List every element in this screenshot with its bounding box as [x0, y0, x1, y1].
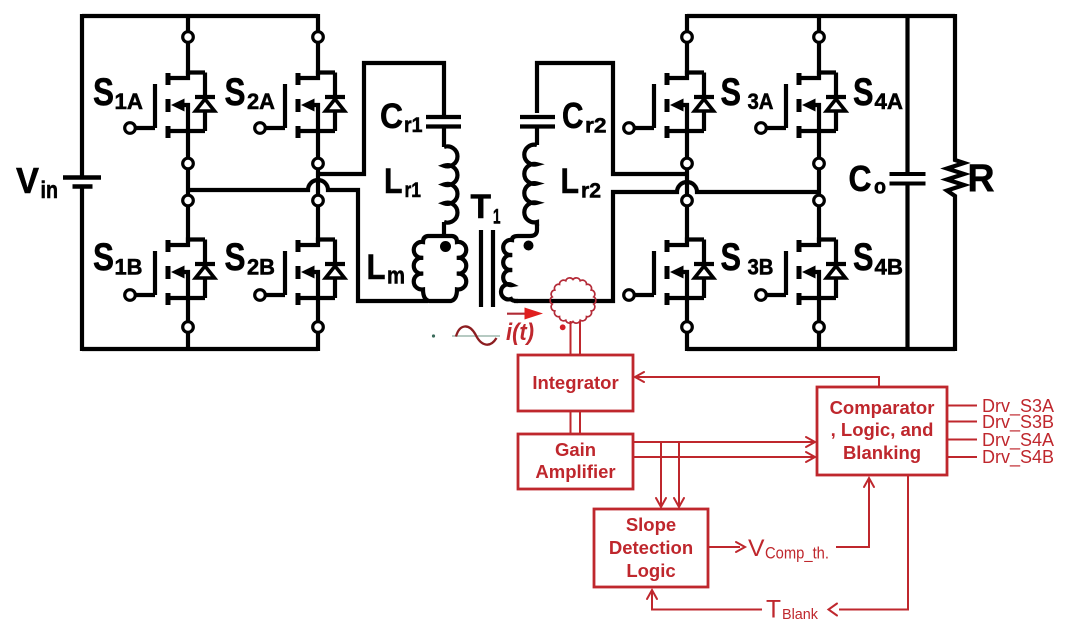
node mid lower leg4	[814, 195, 825, 206]
svg-text:L: L	[561, 162, 580, 201]
svg-text:Detection: Detection	[609, 537, 693, 558]
transistor S3B	[624, 240, 714, 306]
svg-text:S: S	[225, 71, 246, 114]
svg-text:4A: 4A	[875, 89, 904, 114]
block Integrator	[518, 355, 633, 411]
wire: leg2 drain segment	[316, 14, 320, 75]
svg-text:2B: 2B	[247, 255, 275, 280]
node mid lower leg1	[183, 195, 194, 206]
wire: Lr1 to primary winding	[442, 222, 446, 238]
wire: leg3 mid segment	[685, 131, 689, 242]
svg-text:1A: 1A	[115, 89, 144, 114]
current sensor CT	[550, 278, 596, 323]
capacitor Cr1	[426, 117, 461, 127]
transistor S4B	[756, 240, 846, 306]
wire: branch to slope detection right	[678, 442, 680, 505]
node top leg1	[183, 32, 194, 43]
node bottom leg3	[682, 322, 693, 333]
svg-text:r2: r2	[585, 115, 607, 138]
wire: left bridge bottom rail	[82, 347, 318, 351]
svg-text:S: S	[853, 71, 874, 114]
block Comparator Logic and Blanking	[817, 387, 947, 475]
wire: leg2 mid segment	[316, 131, 320, 242]
svg-text:m: m	[387, 263, 405, 290]
svg-text:r2: r2	[581, 180, 601, 203]
svg-text:S: S	[853, 236, 874, 279]
inductor Lr2	[524, 145, 537, 226]
wire: Vcomp to comparator bottom	[836, 480, 869, 547]
svg-text:i(t): i(t)	[506, 319, 534, 346]
node bottom leg4	[814, 322, 825, 333]
node bottom leg2	[313, 322, 324, 333]
svg-text:Drv_S4B: Drv_S4B	[982, 447, 1054, 468]
current direction arrow	[507, 313, 526, 315]
node mid upper leg1	[183, 158, 194, 169]
wire: left input rail lower	[80, 187, 84, 351]
svg-text:C: C	[562, 95, 584, 136]
transistor S2A	[255, 73, 345, 139]
drive output stub S4A	[947, 439, 977, 441]
wire: branch to slope detection left	[660, 442, 662, 505]
svg-text:S: S	[93, 71, 114, 114]
wire: right tank top to leg3 midpoint	[537, 63, 687, 174]
wire: Cr1 to Lr1	[442, 129, 446, 148]
wire: left bridge top rail	[82, 14, 318, 18]
svg-text:4B: 4B	[875, 255, 904, 280]
node mid upper leg3	[682, 158, 693, 169]
sine sketch	[456, 326, 497, 344]
battery Vin	[63, 175, 101, 180]
sensor phase dot	[560, 324, 566, 330]
svg-text:Blank: Blank	[782, 606, 818, 623]
secondary phase dot	[524, 241, 534, 251]
capacitor Co rail lower	[905, 186, 909, 350]
svg-text:Slope: Slope	[626, 514, 676, 535]
block Slope Detection Logic	[594, 509, 708, 587]
wire: comparator to TBlank label	[839, 475, 908, 610]
wire: leg4 mid segment	[817, 131, 821, 242]
node mid upper leg4	[814, 158, 825, 169]
svg-text:L: L	[384, 162, 403, 201]
capacitor Cr2	[520, 117, 555, 127]
capacitor Co rail upper	[905, 16, 909, 172]
wire: right bridge top rail	[687, 14, 955, 18]
wire: gain to comparator upper	[633, 441, 813, 443]
svg-text:L: L	[367, 248, 386, 287]
primary phase dot	[440, 241, 451, 252]
node mid lower leg3	[682, 195, 693, 206]
svg-text:1B: 1B	[115, 255, 143, 280]
wire: right bridge bottom rail	[687, 347, 955, 351]
wire: left input rail upper	[80, 14, 84, 177]
wire: leg4 bottom segment	[817, 298, 821, 351]
drive output stub S3A	[947, 405, 977, 407]
svg-text:Integrator: Integrator	[532, 372, 618, 393]
svg-text:Comparator: Comparator	[830, 397, 935, 418]
transistor S1A	[125, 73, 215, 139]
wire: Cr2 to Lr2	[535, 129, 539, 146]
wire: leg1 mid segment	[186, 131, 190, 242]
wire: leg3 bottom segment	[685, 298, 689, 351]
svg-text:2A: 2A	[247, 89, 275, 114]
wire: comparator to integrator feedback	[636, 377, 879, 387]
sine sketch axis	[452, 335, 500, 337]
wire: leg3 drain segment	[685, 14, 689, 75]
svg-text:3B: 3B	[748, 255, 774, 280]
transformer secondary winding	[501, 224, 537, 301]
wire: leg1 bottom segment	[186, 298, 190, 351]
inductor Lr1	[444, 146, 457, 222]
transistor S3A	[624, 73, 714, 139]
transistor S4A	[756, 73, 846, 139]
svg-text:3A: 3A	[748, 89, 774, 114]
capacitor Co	[890, 174, 926, 184]
wire: leg1 midpoint to primary bottom with hop over leg2	[188, 180, 428, 301]
drive output stub S3B	[947, 421, 977, 423]
svg-text:r1: r1	[405, 179, 422, 202]
wire: integrator to gain pair	[571, 411, 581, 434]
wire: TBlank to slope bottom	[652, 592, 762, 610]
svg-text:C: C	[849, 158, 872, 199]
svg-text:Amplifier: Amplifier	[535, 461, 615, 482]
resistor R	[947, 14, 964, 351]
node mid lower leg2	[313, 195, 324, 206]
node top leg3	[682, 32, 693, 43]
svg-text:V: V	[16, 160, 39, 201]
svg-text:Logic: Logic	[626, 560, 675, 581]
svg-text:1: 1	[493, 206, 501, 229]
svg-text:S: S	[721, 71, 742, 114]
wire: secondary bottom rail through sensor to leg4 with hop over leg3	[514, 182, 819, 301]
transformer core	[481, 230, 493, 307]
sensor secondary pair	[571, 321, 581, 355]
svg-text:Comp_th.: Comp_th.	[765, 545, 829, 563]
drive output stub S4B	[947, 456, 977, 458]
svg-text:Gain: Gain	[555, 439, 596, 460]
node top leg2	[313, 32, 324, 43]
svg-text:in: in	[41, 177, 59, 204]
svg-text:S: S	[225, 236, 246, 279]
wire: leg2 bottom segment	[316, 298, 320, 351]
transistor S1B	[125, 240, 215, 306]
svg-text:S: S	[721, 236, 742, 279]
svg-text:r1: r1	[404, 114, 423, 137]
svg-text:o: o	[874, 176, 886, 199]
svg-text:T: T	[766, 596, 781, 624]
svg-text:S: S	[93, 236, 114, 279]
svg-text:V: V	[748, 535, 765, 562]
node mid upper leg2	[313, 158, 324, 169]
wire: leg2 midpoint to left tank top	[318, 63, 444, 174]
node bottom leg1	[183, 322, 194, 333]
svg-text:T: T	[471, 188, 492, 226]
wire: gain to comparator lower	[633, 456, 813, 458]
wire: leg4 drain segment	[817, 14, 821, 75]
wire: leg1 drain segment	[186, 14, 190, 75]
svg-text:R: R	[968, 157, 995, 200]
svg-text:, Logic, and: , Logic, and	[831, 419, 934, 440]
svg-text:Blanking: Blanking	[843, 442, 921, 463]
transformer T1 primary winding Lm	[414, 236, 467, 301]
transistor S2B	[255, 240, 345, 306]
wire: slope to Vcomp label	[708, 546, 740, 548]
svg-text:C: C	[380, 97, 403, 136]
block Gain Amplifier	[518, 434, 633, 489]
node top leg4	[814, 32, 825, 43]
